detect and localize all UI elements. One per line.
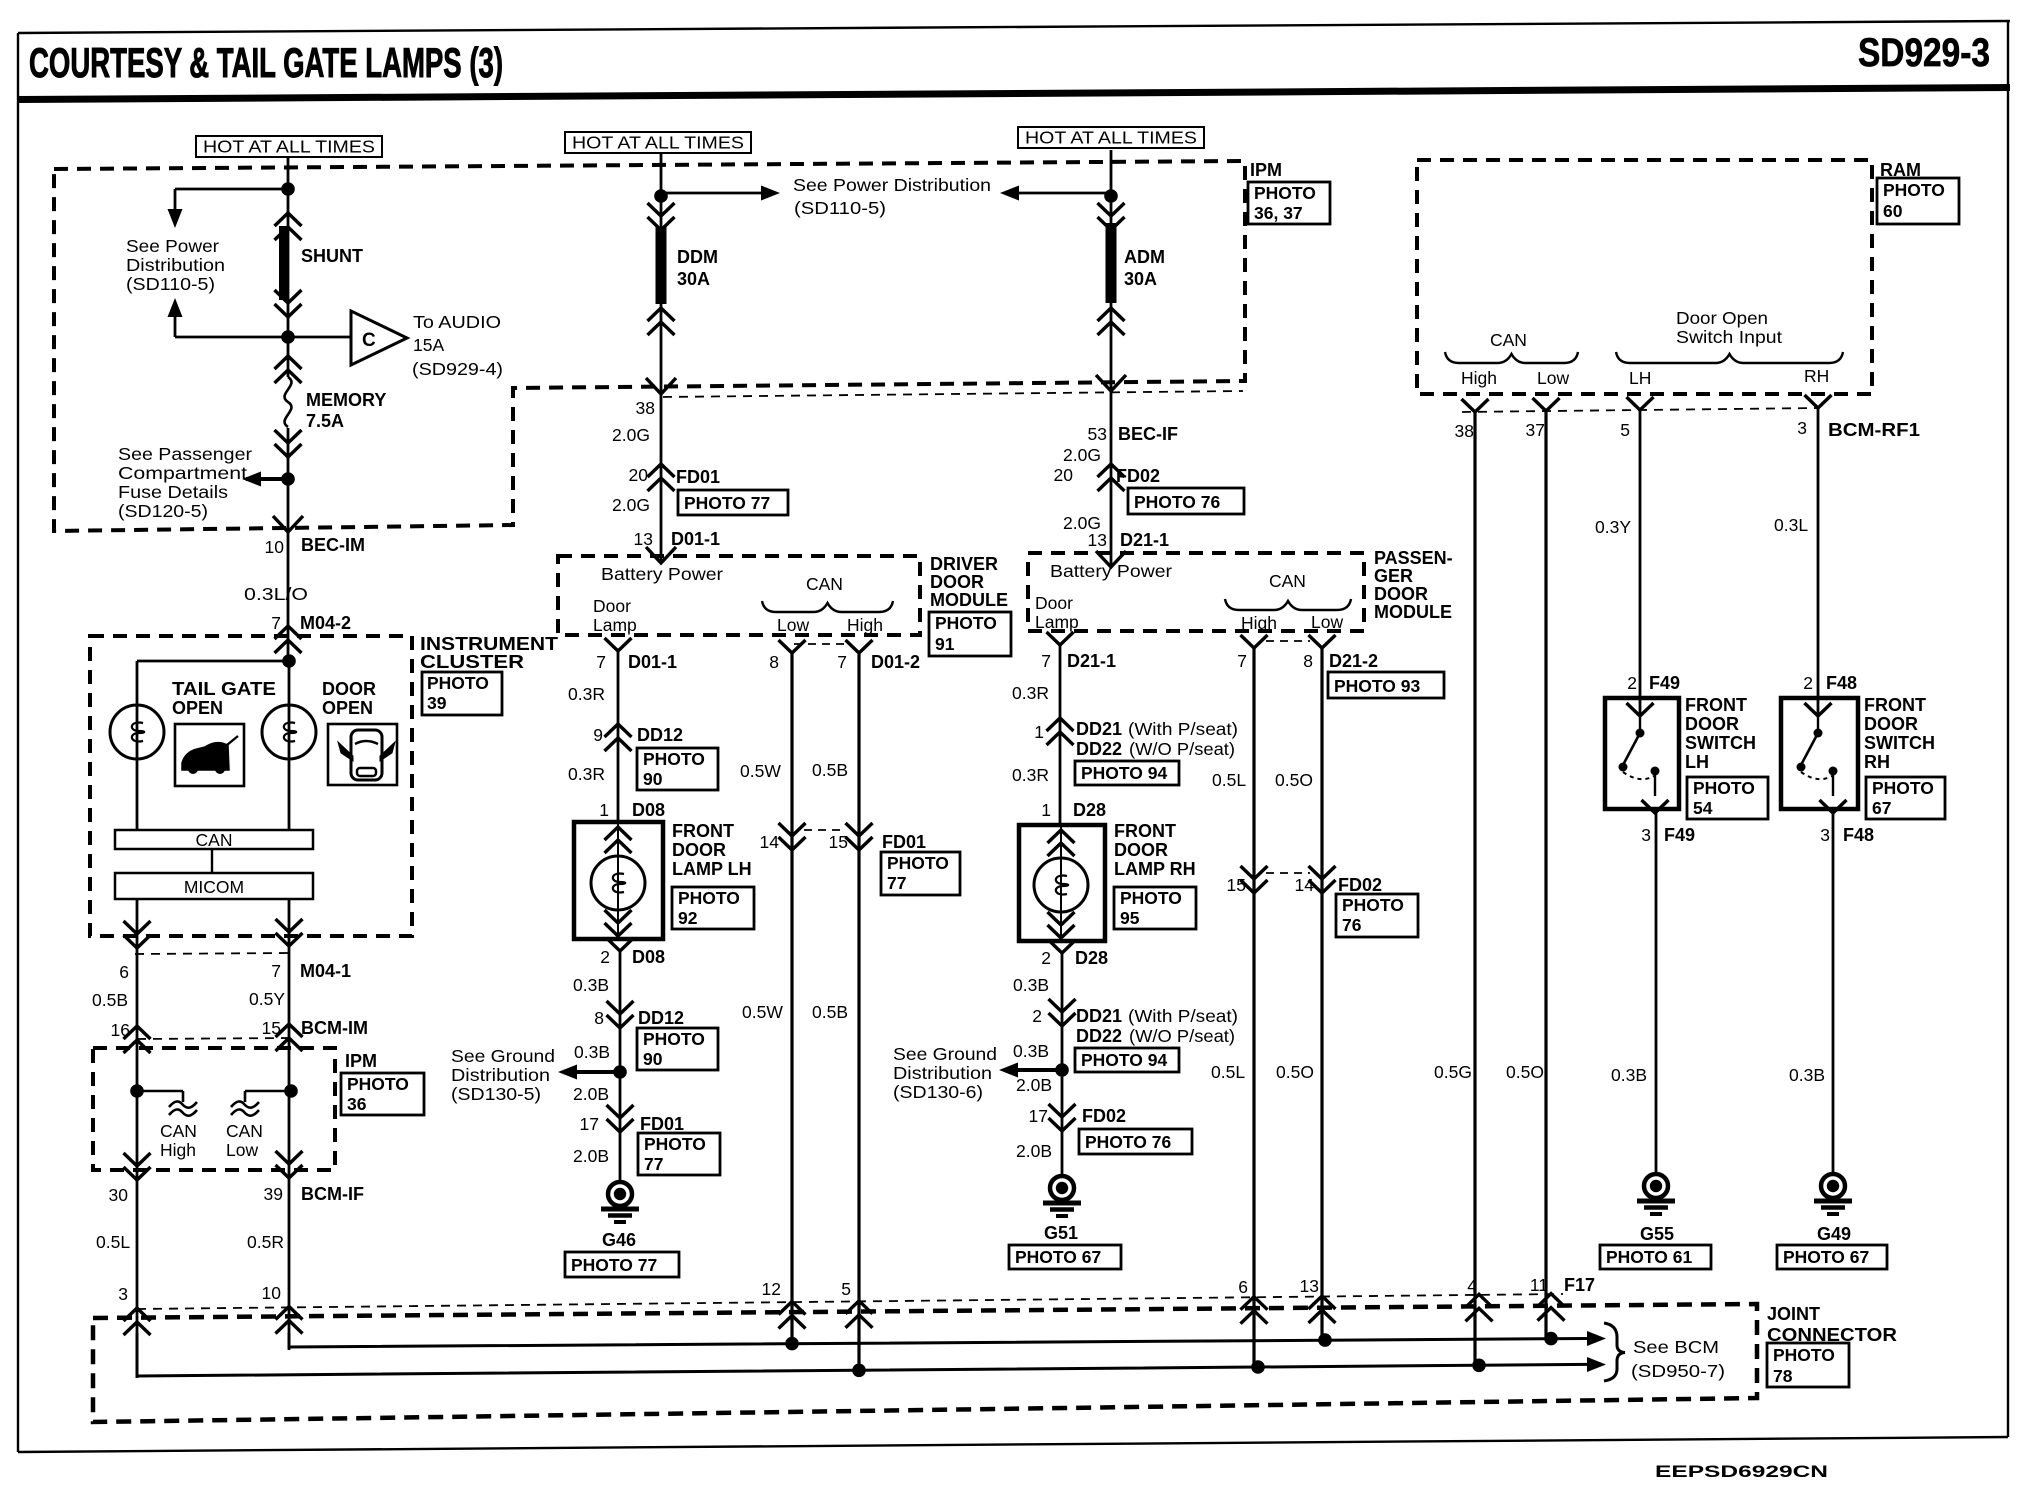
svg-text:MODULE: MODULE (1374, 602, 1452, 622)
svg-text:DOOR: DOOR (1114, 840, 1168, 860)
connector pin 38 (BEC-IF boundary) (636, 378, 1243, 418)
connector F49 pin 3 (1641, 825, 1695, 845)
svg-text:See Power: See Power (126, 236, 219, 256)
svg-text:D01-2: D01-2 (871, 652, 920, 672)
svg-text:D01-1: D01-1 (671, 529, 720, 549)
svg-text:See Ground: See Ground (893, 1044, 997, 1064)
wire label 0.3R (driver 2) (568, 764, 605, 784)
arrow: see power distribution (from DDM) (661, 186, 780, 201)
wire labels 0.5W / 0.5B upper (740, 760, 848, 781)
svg-text:2.0B: 2.0B (573, 1146, 609, 1166)
svg-text:Lamp: Lamp (1035, 612, 1079, 632)
label JOINT CONNECTOR + PHOTO 78 (1767, 1304, 1897, 1387)
dashed box: driver door module (558, 556, 920, 635)
svg-text:36: 36 (347, 1094, 367, 1114)
box: FRONT DOOR SWITCH LH (1605, 698, 1679, 813)
svg-text:7: 7 (271, 613, 281, 633)
svg-text:High: High (160, 1140, 196, 1160)
wire: branch to tail gate bulb (137, 661, 289, 830)
text See Ground Distribution (SD130-6) (893, 1044, 997, 1102)
svg-text:Low: Low (777, 615, 809, 635)
ground G55 (1600, 1174, 1711, 1269)
joint connector pins 6/13 (1238, 1276, 1335, 1324)
svg-text:D21-1: D21-1 (1067, 651, 1116, 671)
svg-text:10: 10 (265, 537, 285, 557)
svg-text:See Ground: See Ground (451, 1046, 555, 1066)
junction dot cluster top (282, 654, 296, 668)
wire labels 0.5L / 0.5O upper (1212, 770, 1313, 790)
svg-text:F49: F49 (1649, 673, 1680, 693)
svg-text:13: 13 (1088, 530, 1107, 550)
footer code EEPSD6929CN (1655, 1463, 1828, 1481)
svg-text:GER: GER (1374, 566, 1413, 586)
svg-text:78: 78 (1773, 1366, 1793, 1386)
svg-text:0.3B: 0.3B (1789, 1065, 1825, 1085)
svg-text:D21-1: D21-1 (1120, 530, 1169, 550)
svg-text:PHOTO: PHOTO (643, 749, 705, 769)
text: See Power Distribution (SD110-5) top (793, 175, 991, 218)
svg-text:D01-1: D01-1 (628, 652, 677, 672)
dashed box: passenger compartment fuse area / IPM (54, 161, 1245, 531)
svg-text:6: 6 (119, 962, 129, 982)
svg-text:BCM-IF: BCM-IF (301, 1184, 364, 1204)
connector FD02 pin 20 (1054, 464, 1244, 514)
svg-text:Switch Input: Switch Input (1676, 327, 1782, 347)
arrow: see passenger compartment fuse details (242, 472, 288, 487)
svg-text:0.5O: 0.5O (1506, 1062, 1544, 1082)
svg-text:PHOTO 61: PHOTO 61 (1606, 1247, 1693, 1267)
svg-text:0.5B: 0.5B (812, 1002, 848, 1022)
svg-text:Fuse Details: Fuse Details (118, 482, 228, 502)
CAN Low termination coil (226, 1084, 298, 1160)
svg-text:DD21: DD21 (1076, 719, 1122, 739)
svg-text:7: 7 (596, 652, 606, 672)
connector DD12 pin 9 (593, 724, 718, 790)
svg-text:3: 3 (1820, 825, 1830, 845)
svg-text:90: 90 (643, 769, 663, 789)
dashed box: passenger door module (1028, 553, 1364, 631)
svg-text:77: 77 (644, 1154, 663, 1174)
svg-text:0.5R: 0.5R (247, 1232, 284, 1252)
svg-text:C: C (362, 330, 376, 351)
box: MICOM (115, 873, 313, 899)
wire labels 0.5L / 0.5O lower (1211, 1062, 1314, 1082)
svg-text:2: 2 (1627, 673, 1637, 693)
connector D21-2 pins 7/8 (1237, 635, 1444, 698)
svg-text:PHOTO: PHOTO (1342, 895, 1404, 915)
svg-text:PHOTO 67: PHOTO 67 (1783, 1247, 1869, 1267)
svg-text:(SD130-5): (SD130-5) (451, 1084, 541, 1104)
svg-text:3: 3 (1797, 418, 1807, 438)
Door Open Switch Input brace (1616, 308, 1843, 388)
wire label 0.3L/O (244, 584, 308, 604)
text: See Power Distribution (SD110-5) left (126, 236, 225, 294)
connector BCM-RF1 pins 38/37/5/3 (1455, 395, 1920, 441)
connector DD21/DD22 pin 2 (1032, 999, 1238, 1072)
fuse SHUNT (275, 213, 364, 317)
svg-text:SD929-3: SD929-3 (1858, 31, 1990, 75)
svg-text:FRONT: FRONT (1685, 695, 1747, 715)
box: FRONT DOOR SWITCH RH (1781, 698, 1858, 813)
svg-text:INSTRUMENT: INSTRUMENT (420, 634, 558, 654)
box: FRONT DOOR LAMP LH (574, 822, 663, 939)
connector DD12 pin 8 (594, 1001, 718, 1070)
wire label 2.0G (2) (612, 495, 650, 515)
wire: door lamp RH feed (1059, 645, 1062, 825)
svg-text:G46: G46 (602, 1230, 636, 1250)
svg-text:20: 20 (1054, 465, 1074, 485)
svg-text:OPEN: OPEN (172, 698, 223, 718)
svg-text:37: 37 (1526, 420, 1545, 440)
svg-text:PHOTO: PHOTO (678, 888, 740, 908)
svg-text:36, 37: 36, 37 (1254, 203, 1303, 223)
svg-text:PHOTO: PHOTO (1120, 888, 1182, 908)
wire: shunt column (287, 157, 290, 661)
svg-text:0.5B: 0.5B (812, 760, 848, 780)
label: HOT AT ALL TIMES (left) (196, 136, 382, 157)
text Battery Power (driver) (601, 564, 723, 584)
svg-text:D21-2: D21-2 (1329, 651, 1378, 671)
svg-text:(With P/seat): (With P/seat) (1128, 719, 1238, 739)
connector DD21/DD22 pin 1 (1034, 718, 1238, 785)
svg-text:6: 6 (1238, 1277, 1248, 1297)
svg-text:PHOTO: PHOTO (935, 613, 997, 633)
svg-text:CAN: CAN (226, 1121, 263, 1141)
svg-text:0.3L: 0.3L (1774, 515, 1808, 535)
svg-text:FRONT: FRONT (1864, 695, 1926, 715)
svg-text:13: 13 (1300, 1276, 1319, 1296)
svg-text:60: 60 (1883, 201, 1903, 221)
wire: CAN Low passenger 0.5O (1320, 648, 1323, 1341)
joint connector pins 4/11 F17 (1466, 1275, 1596, 1321)
svg-text:90: 90 (643, 1049, 663, 1069)
svg-text:See Passenger: See Passenger (118, 444, 252, 464)
svg-text:DD12: DD12 (637, 725, 683, 745)
svg-text:8: 8 (594, 1008, 604, 1028)
svg-text:2.0G: 2.0G (612, 495, 650, 515)
svg-text:(SD929-4): (SD929-4) (412, 359, 503, 379)
arrow: see power distribution (down-left) (168, 189, 289, 228)
box: FRONT DOOR LAMP RH (1019, 825, 1105, 941)
CAN High termination coil (130, 1084, 197, 1160)
audio feed triangle C (288, 311, 407, 365)
svg-text:Compartment: Compartment (118, 463, 247, 483)
thin dashed connector line above joint box (137, 1294, 1563, 1309)
connector D21-1 pin 7 door lamp (1041, 632, 1116, 671)
bulb: TAIL GATE OPEN (110, 679, 276, 759)
svg-text:10: 10 (262, 1283, 282, 1303)
svg-text:30A: 30A (1124, 269, 1157, 289)
svg-text:0.5Y: 0.5Y (249, 989, 285, 1009)
svg-text:DD22: DD22 (1076, 739, 1122, 759)
svg-text:2.0B: 2.0B (1016, 1075, 1052, 1095)
svg-text:EEPSD6929CN: EEPSD6929CN (1655, 1463, 1828, 1481)
svg-text:0.5B: 0.5B (92, 990, 128, 1010)
connector FD01 pin 20 (629, 464, 788, 515)
junction dot DDM top (654, 189, 668, 203)
svg-text:RH: RH (1864, 752, 1890, 772)
wire label 0.3B (driver 1) (573, 975, 609, 995)
wire: switch RH to ground (1832, 813, 1835, 1173)
svg-text:CAN: CAN (1490, 330, 1527, 350)
svg-text:CAN: CAN (160, 1121, 197, 1141)
svg-text:PHOTO 77: PHOTO 77 (571, 1255, 657, 1275)
svg-text:PHOTO: PHOTO (643, 1029, 705, 1049)
wire label 2.0B (driver 1) (573, 1084, 609, 1104)
wire: RAM CAN Low 0.5O (1544, 411, 1547, 1339)
svg-text:CAN: CAN (806, 574, 843, 594)
svg-text:0.3R: 0.3R (1012, 765, 1049, 785)
svg-text:CAN: CAN (196, 830, 233, 850)
wire labels 0.5W / 0.5B lower (742, 1002, 848, 1022)
connector F48 pin 3 (1820, 825, 1874, 845)
box: CAN (115, 830, 313, 850)
svg-text:0.3R: 0.3R (1012, 683, 1049, 703)
svg-text:SWITCH: SWITCH (1685, 733, 1756, 753)
svg-text:95: 95 (1120, 908, 1140, 928)
svg-text:PHOTO: PHOTO (1693, 778, 1755, 798)
svg-text:FD02: FD02 (1082, 1106, 1126, 1126)
svg-text:0.5L: 0.5L (1211, 1062, 1245, 1082)
arrow: see power distribution (from ADM) (1000, 186, 1111, 201)
text See Ground Distribution (SD130-5) (451, 1046, 555, 1104)
svg-text:Distribution: Distribution (893, 1063, 992, 1083)
wire: lamp LH to ground (619, 951, 622, 1182)
svg-text:Door Open: Door Open (1676, 308, 1768, 328)
wire labels 0.5L / 0.5R (96, 1232, 284, 1252)
wire label 0.3R (pass 1) (1012, 683, 1049, 703)
svg-text:FRONT: FRONT (1114, 821, 1176, 841)
junction dot top of shunt column (281, 182, 295, 196)
svg-text:2.0G: 2.0G (1063, 445, 1101, 465)
svg-text:53: 53 (1088, 424, 1107, 444)
svg-text:PHOTO: PHOTO (427, 673, 489, 693)
svg-text:15: 15 (1227, 875, 1246, 895)
svg-text:Lamp: Lamp (593, 615, 637, 635)
dashed box: IPM (BCM) (93, 1048, 335, 1170)
svg-text:(SD110-5): (SD110-5) (794, 198, 886, 218)
label FRONT DOOR LAMP LH + PHOTO 92 (672, 821, 754, 929)
svg-text:M04-2: M04-2 (300, 613, 351, 633)
svg-text:0.3B: 0.3B (573, 975, 609, 995)
connector FD02 pins 15/14 (1227, 866, 1418, 937)
wire label 2.0B (driver 2) (573, 1146, 609, 1166)
wire label 0.3B (RH) (1789, 1065, 1825, 1085)
svg-text:ADM: ADM (1124, 247, 1165, 267)
svg-text:(With P/seat): (With P/seat) (1128, 1006, 1238, 1026)
wire: DDM column (660, 153, 663, 563)
wire label 0.3B (pass 2) (1013, 1041, 1049, 1061)
svg-text:14: 14 (760, 832, 780, 852)
svg-text:7: 7 (271, 961, 281, 981)
ground G51 (1009, 1176, 1121, 1269)
svg-text:7: 7 (837, 652, 847, 672)
svg-text:PHOTO 76: PHOTO 76 (1134, 492, 1221, 512)
svg-text:1: 1 (599, 800, 609, 820)
svg-text:DDM: DDM (677, 247, 718, 267)
wire label 2.0B (pass 2) (1016, 1141, 1052, 1161)
connector M04-1 pins 6/7 (119, 919, 351, 982)
CAN High bus (137, 1333, 1606, 1377)
svg-text:Distribution: Distribution (126, 255, 225, 275)
connector M04-2 pin 7 (271, 613, 351, 653)
label: HOT AT ALL TIMES (middle) (565, 132, 751, 153)
svg-text:PHOTO 77: PHOTO 77 (684, 493, 770, 513)
svg-text:(SD950-7): (SD950-7) (1631, 1361, 1725, 1381)
connector F49 pin 2 (1627, 673, 1681, 716)
svg-text:HOT AT ALL TIMES: HOT AT ALL TIMES (203, 137, 375, 157)
wire: switch LH to ground (1655, 813, 1658, 1173)
svg-text:CLUSTER: CLUSTER (420, 652, 524, 672)
connector D28 pin 2 (1041, 940, 1108, 968)
connector FD01 pin 17 (580, 1105, 720, 1175)
dashed box: RAM (1417, 160, 1872, 394)
connector D01-1 pin 7 door lamp (596, 638, 677, 672)
svg-text:PHOTO: PHOTO (1883, 180, 1945, 200)
svg-text:0.5W: 0.5W (740, 761, 781, 781)
wire: door lamp LH feed (617, 651, 620, 822)
svg-text:12: 12 (762, 1279, 781, 1299)
svg-text:See Power Distribution: See Power Distribution (793, 175, 991, 195)
svg-text:FRONT: FRONT (672, 821, 734, 841)
svg-text:7: 7 (1237, 651, 1247, 671)
svg-text:SWITCH: SWITCH (1864, 733, 1935, 753)
svg-text:3: 3 (118, 1284, 128, 1304)
svg-text:8: 8 (1303, 651, 1313, 671)
svg-text:D08: D08 (632, 800, 665, 820)
svg-text:PHOTO 67: PHOTO 67 (1015, 1247, 1101, 1267)
text Door Lamp (passenger) (1035, 593, 1079, 632)
svg-text:0.3B: 0.3B (1013, 975, 1049, 995)
svg-text:PHOTO 94: PHOTO 94 (1081, 763, 1168, 783)
label FRONT DOOR SWITCH RH + PHOTO 67 (1864, 695, 1945, 819)
svg-text:4: 4 (1467, 1276, 1477, 1296)
svg-text:F48: F48 (1843, 825, 1874, 845)
connector pin 53 BEC-IF (1088, 375, 1178, 444)
svg-text:BEC-IM: BEC-IM (301, 535, 365, 555)
svg-text:PHOTO: PHOTO (1254, 183, 1316, 203)
dashed box: instrument cluster (90, 636, 412, 936)
svg-text:F49: F49 (1664, 825, 1695, 845)
svg-text:(SD110-5): (SD110-5) (126, 274, 215, 294)
svg-text:9: 9 (593, 725, 603, 745)
svg-text:2.0B: 2.0B (573, 1084, 609, 1104)
svg-text:PHOTO 93: PHOTO 93 (1334, 676, 1421, 696)
svg-text:MICOM: MICOM (184, 877, 244, 897)
svg-text:0.5L: 0.5L (96, 1232, 130, 1252)
svg-text:PHOTO: PHOTO (644, 1134, 706, 1154)
label DRIVER DOOR MODULE + PHOTO 91 (929, 554, 1011, 656)
svg-text:G51: G51 (1044, 1223, 1078, 1243)
svg-text:76: 76 (1342, 915, 1362, 935)
wire labels 0.3Y / 0.3L (1595, 515, 1808, 537)
wire label 0.3R (pass 2) (1012, 765, 1049, 785)
svg-text:DD12: DD12 (638, 1008, 684, 1028)
svg-text:38: 38 (1455, 421, 1474, 441)
svg-text:0.5L: 0.5L (1212, 770, 1246, 790)
fuse DDM 30A (648, 203, 719, 335)
svg-text:DOOR: DOOR (930, 572, 984, 592)
svg-text:0.3R: 0.3R (568, 764, 605, 784)
svg-text:Low: Low (1537, 368, 1569, 388)
svg-text:BCM-RF1: BCM-RF1 (1828, 420, 1920, 440)
svg-text:FD01: FD01 (882, 832, 926, 852)
svg-text:(W/O P/seat): (W/O P/seat) (1129, 1026, 1235, 1046)
icon: door open (328, 724, 397, 785)
svg-text:HOT AT ALL TIMES: HOT AT ALL TIMES (572, 133, 744, 153)
wire: lamp RH to ground (1061, 953, 1064, 1176)
svg-text:DOOR: DOOR (1374, 584, 1428, 604)
connector D01-1 pin 13 (634, 529, 721, 563)
svg-text:0.5G: 0.5G (1434, 1062, 1472, 1082)
svg-text:54: 54 (1693, 798, 1713, 818)
svg-text:IPM: IPM (1250, 160, 1282, 180)
label RAM + PHOTO 60 (1877, 160, 1959, 224)
wire label 0.3B (pass 1) (1013, 975, 1049, 995)
svg-text:F17: F17 (1564, 1275, 1595, 1295)
svg-text:0.3B: 0.3B (574, 1042, 610, 1062)
connector D21-1 pin 13 (1088, 530, 1170, 567)
svg-text:BCM-IM: BCM-IM (301, 1018, 368, 1038)
joint connector pins 3/10 (118, 1283, 302, 1335)
wire: ADM column (1110, 150, 1113, 567)
text Door Lamp (driver) (593, 596, 637, 635)
connector BCM-IF pins 30/39 (109, 1151, 364, 1205)
svg-text:FD02: FD02 (1116, 466, 1160, 486)
svg-text:11: 11 (1530, 1275, 1548, 1295)
svg-text:2: 2 (1032, 1006, 1042, 1026)
wire label 2.0B (pass 1) (1016, 1075, 1052, 1095)
svg-text:0.5O: 0.5O (1275, 770, 1313, 790)
svg-text:0.5W: 0.5W (742, 1002, 783, 1022)
wire: cluster outputs (137, 899, 289, 1378)
svg-text:30: 30 (109, 1185, 129, 1205)
svg-text:DD21: DD21 (1076, 1006, 1122, 1026)
svg-text:SHUNT: SHUNT (301, 246, 363, 266)
svg-text:15: 15 (262, 1018, 281, 1038)
wire labels 0.5G / 0.5O lower (1434, 1062, 1544, 1082)
label: HOT AT ALL TIMES (right) (1018, 127, 1204, 148)
ground distribution arrow (passenger) (999, 1063, 1069, 1078)
svg-text:0.5O: 0.5O (1276, 1062, 1314, 1082)
brace and See BCM (SD950-7) (1604, 1323, 1725, 1381)
ground G46 (565, 1182, 679, 1277)
svg-text:8: 8 (769, 652, 779, 672)
connector F48 pin 2 (1803, 673, 1857, 716)
svg-text:92: 92 (678, 908, 698, 928)
svg-text:D28: D28 (1073, 800, 1106, 820)
label FRONT DOOR SWITCH LH + PHOTO 54 (1685, 695, 1768, 819)
svg-text:FD01: FD01 (676, 467, 720, 487)
page number SD929-3 (1858, 31, 1990, 75)
connector FD01 pins 14/15 (760, 823, 960, 895)
svg-text:7.5A: 7.5A (306, 411, 344, 431)
svg-text:17: 17 (1029, 1106, 1048, 1126)
svg-text:2.0G: 2.0G (612, 425, 650, 445)
svg-text:PHOTO: PHOTO (1872, 778, 1934, 798)
svg-text:MODULE: MODULE (930, 590, 1008, 610)
wire: door open column through bulb (288, 661, 291, 830)
svg-text:2: 2 (1041, 948, 1051, 968)
svg-text:PHOTO 76: PHOTO 76 (1085, 1132, 1172, 1152)
svg-text:PHOTO: PHOTO (1773, 1345, 1835, 1365)
svg-text:1: 1 (1041, 800, 1051, 820)
CAN brace driver (762, 574, 893, 635)
svg-text:LH: LH (1629, 368, 1651, 388)
svg-text:LH: LH (1685, 752, 1709, 772)
fuse MEMORY 7.5A (275, 356, 387, 457)
svg-text:IPM: IPM (345, 1051, 377, 1071)
